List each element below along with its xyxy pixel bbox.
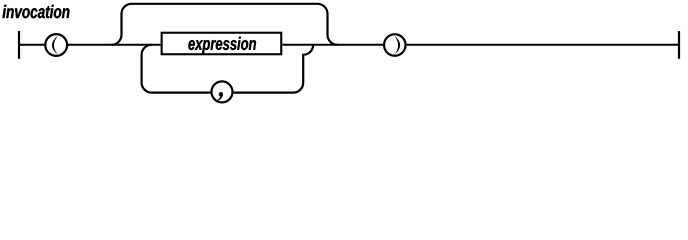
rule name label: invocation xyxy=(3,5,70,18)
glyph: , xyxy=(219,92,223,96)
wire: rail from ( to expression box xyxy=(68,44,161,46)
repeat loop (comma separated), bottom loop xyxy=(142,45,314,93)
wire: rail from start tick to ( terminal xyxy=(19,44,44,46)
bypass branch (skip expression list), top loop xyxy=(112,4,338,45)
non-terminal box: expression xyxy=(162,33,282,55)
start terminal tick xyxy=(18,31,20,59)
glyph: ( xyxy=(52,35,59,54)
wire: rail from expression box to ) terminal xyxy=(283,44,384,46)
terminal circle: ) xyxy=(384,34,406,56)
end terminal tick xyxy=(678,31,680,59)
terminal circle: ( xyxy=(45,34,67,56)
glyph: ) xyxy=(394,35,400,54)
wire: rail from ) to end tick xyxy=(407,44,679,46)
terminal circle: , (comma) xyxy=(212,81,233,102)
